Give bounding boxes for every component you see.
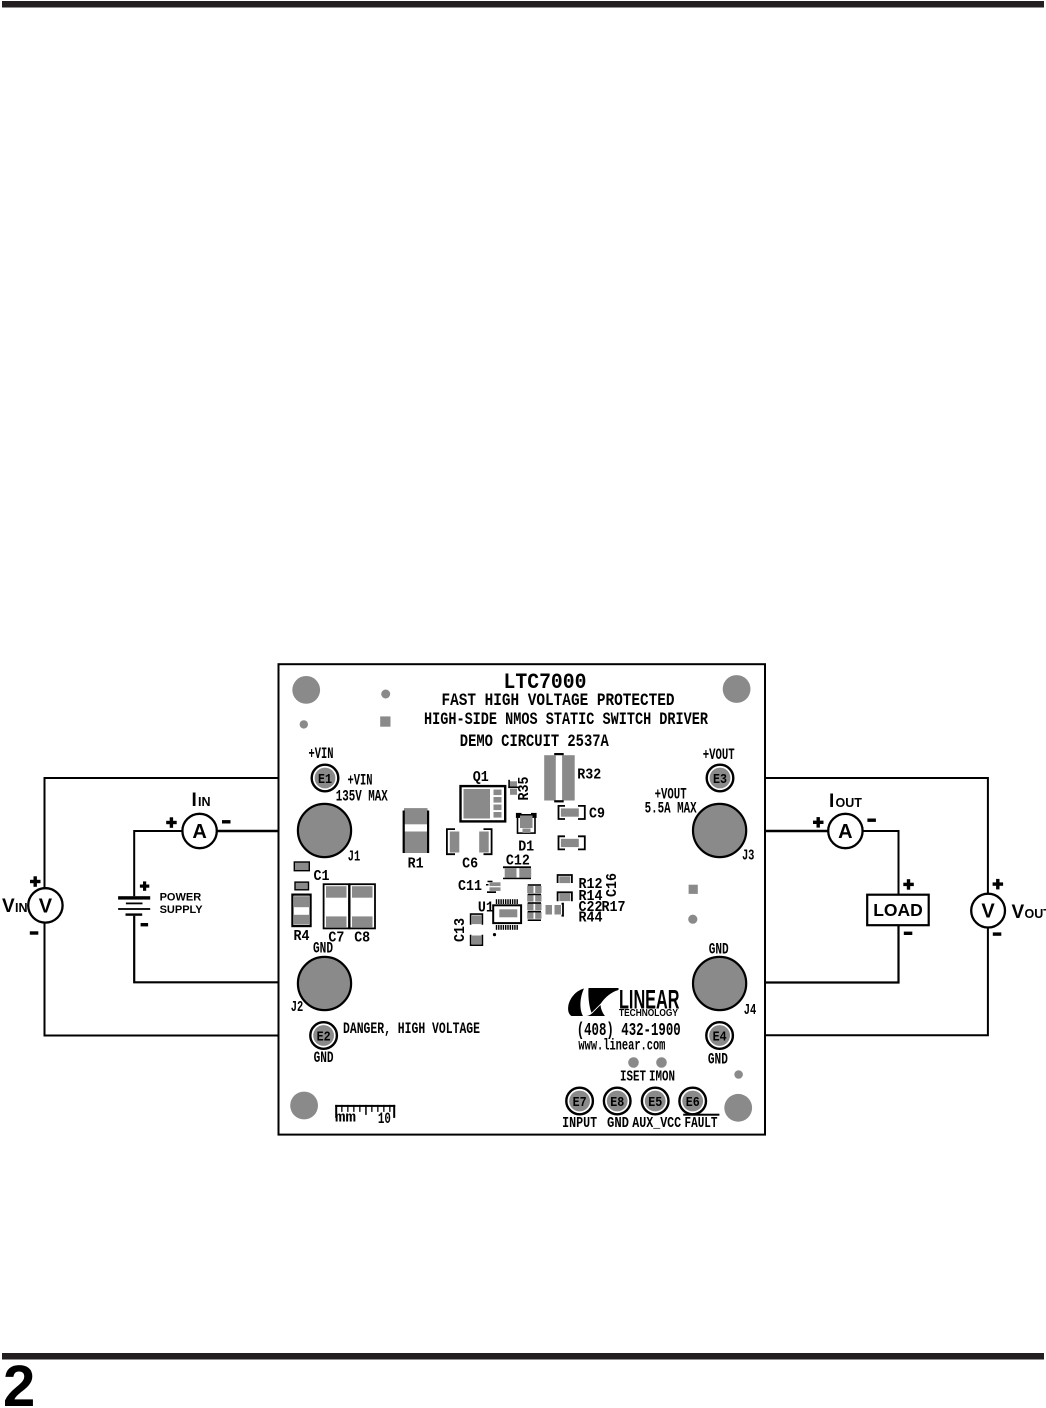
svg-text:2: 2 [3,1354,35,1408]
svg-text:GND: GND [314,1049,334,1067]
label C7 [328,930,344,947]
capacitor C7 [324,884,349,928]
ammeter IOUT [813,814,876,848]
svg-text:V: V [1012,902,1025,923]
svg-text:TECHNOLOGY: TECHNOLOGY [619,1008,678,1019]
LOAD box [867,879,929,935]
testpoint ISET [628,1057,639,1068]
label R35 [516,777,533,801]
label U1 [478,900,494,917]
label phone number [577,1020,681,1041]
svg-text:HIGH-SIDE NMOS STATIC SWITCH D: HIGH-SIDE NMOS STATIC SWITCH DRIVER [424,711,708,730]
LT logo TECHNOLOGY text [619,1008,678,1019]
turret E4 [706,1022,733,1049]
resistor R12 [558,875,572,883]
turret E7 [566,1088,593,1115]
label AUX_VCC below E5 [632,1115,681,1132]
fiducial square near J3 [689,885,698,894]
label R32 [577,767,601,784]
resistor R14 [558,892,572,901]
svg-text:R4: R4 [294,928,310,945]
svg-text:POWER: POWER [160,892,202,904]
capacitor C13 [471,914,483,945]
label +VIN right of E1 [348,772,373,790]
testpoint IMON [656,1057,667,1068]
via dot near J3 [688,915,697,924]
svg-text:GND: GND [607,1115,629,1132]
svg-text:5.5A MAX: 5.5A MAX [645,800,697,818]
svg-text:mm: mm [335,1110,356,1127]
label GND below E2 [314,1049,334,1067]
wire power supply minus to J2 [134,916,299,983]
label GND above J2 [313,940,333,958]
label C8 [354,930,370,947]
svg-text:AUX_VCC: AUX_VCC [632,1115,681,1132]
label C12 [506,853,530,870]
label FAULT below E6 with overline [683,1114,719,1132]
label GND below E8 [607,1115,629,1132]
turret E5 [642,1088,669,1115]
label C16 [604,873,621,897]
svg-text:I: I [192,790,197,811]
svg-text:FAULT: FAULT [685,1115,718,1132]
label GND below E4 [708,1051,728,1069]
turret E3 [707,765,734,792]
label DANGER, HIGH VOLTAGE [343,1020,480,1038]
label R4 [294,928,310,945]
power supply battery symbol [118,881,150,926]
resistor R32 [544,753,575,802]
mounting hole bottom-right [724,1094,752,1122]
svg-text:E3: E3 [713,773,727,788]
label IOUT [829,791,862,812]
svg-text:R1: R1 [408,856,424,873]
board title LTC7000 [504,669,587,695]
svg-text:R35: R35 [516,777,533,801]
label +VIN above E1 [309,745,334,763]
svg-text:www.linear.com: www.linear.com [578,1037,665,1055]
turret E6 [679,1088,706,1115]
svg-text:J4: J4 [744,1002,757,1019]
svg-text:ISET: ISET [620,1069,646,1086]
LT logo LINEAR text [619,985,680,1015]
svg-text:A: A [838,821,852,843]
mounting hole top-left [292,676,320,704]
capacitor C6 [447,829,492,854]
via dot near top-left [300,720,308,728]
svg-text:C11: C11 [458,878,482,895]
svg-text:10: 10 [378,1110,391,1128]
demo board DC2537A outline [279,664,766,1134]
label 5.5A MAX [645,800,697,818]
svg-text:IN: IN [198,795,211,809]
svg-text:E5: E5 [648,1096,662,1111]
mounting hole top-right [723,675,751,703]
svg-text:DANGER, HIGH VOLTAGE: DANGER, HIGH VOLTAGE [343,1020,480,1038]
svg-text:IMON: IMON [649,1069,675,1086]
svg-text:C8: C8 [354,930,370,947]
board title DEMO CIRCUIT 2537A [460,733,609,752]
label IIN [192,790,211,811]
board title HIGH-SIDE NMOS STATIC SWITCH DRIVER [424,711,708,730]
label J3 [742,848,755,865]
svg-text:C1: C1 [314,868,330,885]
svg-text:Q1: Q1 [473,769,489,786]
svg-text:E7: E7 [573,1096,587,1111]
label C1 [314,868,330,885]
label C11 [458,878,482,895]
label +VOUT left of J3 [655,786,687,804]
IC U1 [493,899,521,936]
resistor R1 [403,808,430,853]
svg-text:DEMO CIRCUIT 2537A: DEMO CIRCUIT 2537A [460,733,609,752]
svg-text:V: V [39,896,53,918]
svg-text:E1: E1 [318,773,332,788]
label C13 [452,918,469,942]
wire E3 to VOUT voltmeter top [734,778,988,894]
voltmeter VIN [28,876,62,934]
svg-text:OUT: OUT [836,796,863,810]
turret E8 [604,1088,631,1115]
mounting hole bottom-left [290,1092,318,1120]
svg-text:INPUT: INPUT [562,1115,597,1132]
svg-text:+VIN: +VIN [309,745,334,763]
svg-text:IN: IN [15,901,28,915]
label ISET [620,1069,646,1086]
svg-text:GND: GND [708,1051,728,1069]
capacitor below C9 [559,836,585,849]
svg-text:J2: J2 [291,999,304,1016]
wire ammeter IOUT minus to LOAD [863,831,899,895]
label INPUT below E7 [562,1115,597,1132]
label R12 [579,876,603,893]
svg-text:C9: C9 [589,806,605,823]
label D1 [518,839,534,856]
label C6 [462,856,478,873]
banana jack J3 [693,804,746,857]
wire LOAD bottom to J4 [745,925,899,982]
wire VOUT voltmeter bottom to E4 [733,928,988,1036]
label C22 [579,899,603,916]
resistor R35 [508,780,518,795]
svg-text:GND: GND [709,941,729,959]
resistor R4 [292,895,310,927]
wire ammeter IIN minus to J1 [217,830,299,833]
svg-text:FAST HIGH VOLTAGE PROTECTED: FAST HIGH VOLTAGE PROTECTED [442,692,675,711]
label POWER SUPPLY [160,892,204,917]
svg-text:V: V [981,901,995,923]
wire J3 to ammeter IOUT plus [745,830,828,833]
voltmeter VOUT [971,879,1005,936]
capacitor C1 [294,862,309,890]
via dot top-center [381,690,390,699]
svg-text:E2: E2 [317,1031,331,1046]
label R17 [602,899,626,916]
label 135V MAX [336,788,388,806]
svg-text:+VOUT: +VOUT [703,746,735,764]
label R14 [579,888,603,905]
diode D1 [516,813,537,833]
label C9 [589,806,605,823]
label J4 [744,1002,757,1019]
capacitor C8 [350,884,375,928]
mm ruler scale [335,1105,395,1128]
banana jack J1 [298,804,351,857]
label R1 [408,856,424,873]
svg-text:C7: C7 [328,930,344,947]
board title FAST HIGH VOLTAGE PROTECTED [442,692,675,711]
svg-text:C16: C16 [604,873,621,897]
banana jack J2 [298,957,351,1010]
svg-text:SUPPLY: SUPPLY [160,904,204,916]
svg-text:LOAD: LOAD [873,900,923,920]
label Q1 [473,769,489,786]
svg-text:A: A [192,821,206,843]
svg-text:E6: E6 [686,1096,700,1111]
capacitor bank column right of U1 [527,884,541,921]
label VIN [2,896,28,917]
svg-text:I: I [829,791,834,812]
via dot bottom-right [734,1070,743,1079]
svg-text:J3: J3 [742,848,755,865]
ammeter IIN [166,814,230,848]
svg-text:V: V [2,896,15,917]
fiducial square top-center [380,716,390,726]
label R44 [579,910,603,927]
capacitor C11 [486,881,501,893]
wire E1 to VIN voltmeter top [45,778,312,888]
svg-text:135V MAX: 135V MAX [336,788,388,806]
svg-text:R32: R32 [577,767,601,784]
banana jack J4 [693,957,746,1010]
svg-text:C13: C13 [452,918,469,942]
label VOUT [1012,902,1046,923]
label web url [578,1037,665,1055]
svg-text:E4: E4 [713,1031,727,1046]
label J1 [348,849,361,866]
svg-text:E8: E8 [610,1096,624,1111]
svg-text:R17: R17 [602,899,626,916]
label J2 [291,999,304,1016]
capacitor C9 [559,806,585,819]
label IMON [649,1069,675,1086]
wire ammeter IIN plus to power supply [134,831,182,896]
svg-text:J1: J1 [348,849,361,866]
wire VIN voltmeter bottom to E2 [45,923,311,1036]
transistor Q1 [461,786,506,821]
svg-text:OUT: OUT [1025,907,1046,921]
turret E1 [312,765,339,792]
svg-text:C6: C6 [462,856,478,873]
capacitor C12 [503,866,531,879]
label +VOUT above E3 [703,746,735,764]
turret E2 [310,1022,337,1049]
LT logo mark [568,988,618,1016]
label GND above J4 [709,941,729,959]
svg-text:R44: R44 [579,910,603,927]
capacitor C22 R44 pads [546,904,564,916]
